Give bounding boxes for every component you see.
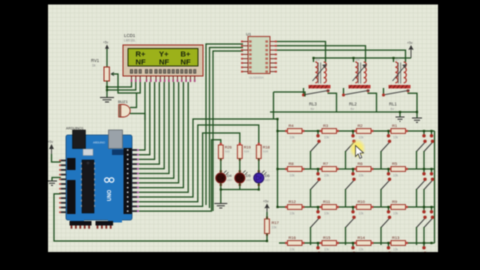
- wire P1 to RV1 top: [106, 49, 108, 67]
- push button S15 (row 3): [424, 207, 434, 245]
- resistor R7: [320, 161, 339, 178]
- svg-text:RL1: RL1: [389, 102, 397, 107]
- svg-text:U1: U1: [246, 32, 252, 37]
- buzzer wires: [130, 93, 145, 120]
- ground G3 (relay bus): [412, 112, 422, 122]
- matrix row 3 wire: [278, 206, 435, 208]
- svg-text:R8: R8: [289, 161, 295, 166]
- relay switch RL3: [302, 88, 330, 111]
- svg-text:10k: 10k: [324, 211, 330, 215]
- ground G5 (col4 top): [396, 112, 405, 121]
- wires U1 outputs to relay coils: [277, 42, 406, 63]
- svg-text:R3: R3: [323, 123, 329, 128]
- resistor R1: [389, 123, 408, 140]
- resistor R14: [354, 235, 373, 252]
- resistor R17: [265, 217, 280, 236]
- Arduino logo + UNO text: [105, 178, 114, 201]
- svg-text:ULN2003A: ULN2003A: [249, 76, 264, 80]
- push button S6 (row 2): [311, 169, 321, 207]
- svg-text:10k: 10k: [290, 135, 296, 139]
- svg-text:10k: 10k: [324, 173, 330, 177]
- relay switch RL1: [382, 88, 410, 111]
- wire Arduino to R18: [139, 125, 259, 202]
- Arduino UNO board ARD1: [66, 127, 132, 223]
- wires LEDs to ground join: [221, 183, 259, 203]
- svg-text:10k: 10k: [393, 135, 399, 139]
- svg-text:10k: 10k: [359, 135, 365, 139]
- svg-text:LED: LED: [265, 178, 270, 182]
- wire Arduino to R19: [139, 133, 240, 206]
- relay bottom bus wire: [270, 111, 417, 113]
- resistor R8: [285, 161, 304, 178]
- svg-text:LM016L: LM016L: [124, 39, 136, 43]
- svg-text:NF: NF: [181, 58, 191, 67]
- power +5V P1 (above RV1): [103, 41, 109, 57]
- wires relay switch outputs to bottom bus: [328, 93, 418, 112]
- mouse cursor: [356, 146, 364, 159]
- push button S10 (row 2): [424, 169, 434, 207]
- relay coil U7 (for RL1): [389, 58, 411, 89]
- svg-text:RL2: RL2: [349, 102, 357, 107]
- resistor R4: [285, 123, 304, 140]
- resistor R5: [389, 161, 408, 178]
- push button S17 (row 4): [351, 243, 355, 255]
- svg-text:R13: R13: [392, 235, 400, 240]
- svg-text:R15: R15: [323, 235, 331, 240]
- svg-text:10k: 10k: [272, 226, 278, 230]
- push button S4 (row 1): [417, 131, 427, 169]
- svg-text:UNO: UNO: [107, 190, 113, 201]
- svg-text:U7: U7: [396, 58, 400, 62]
- svg-text:500: 500: [225, 150, 230, 154]
- svg-text:10k: 10k: [359, 247, 365, 251]
- push button S8 (row 2): [381, 169, 391, 207]
- svg-text:10k: 10k: [393, 247, 399, 251]
- buzzer BUZ1: [118, 100, 130, 117]
- svg-text:10k: 10k: [393, 211, 399, 215]
- svg-text:R6: R6: [358, 161, 364, 166]
- svg-text:RV1: RV1: [91, 58, 100, 63]
- Arduino ATmega DIP IC: [81, 160, 95, 213]
- LED D6: [254, 170, 270, 183]
- svg-text:BUZ1: BUZ1: [118, 100, 128, 104]
- svg-text:R5: R5: [392, 161, 398, 166]
- svg-text:RL3: RL3: [309, 102, 317, 107]
- Arduino right pin header: [124, 148, 140, 214]
- wire relay area to matrix left bus top: [274, 92, 306, 97]
- resistor R9: [389, 199, 408, 216]
- relay coil supply bus: [314, 58, 412, 62]
- matrix right bus: [434, 131, 436, 243]
- svg-text:10k: 10k: [290, 211, 296, 215]
- svg-text:LCD1: LCD1: [124, 33, 136, 38]
- LED D5: [235, 170, 251, 183]
- relay coil U6 (for RL2): [349, 58, 371, 89]
- relay switch RL2: [342, 88, 370, 111]
- LED pin junction dots: [220, 170, 261, 186]
- schematic grid background: [48, 5, 438, 253]
- wires resistors to LEDs: [221, 159, 259, 174]
- push button S1 (row 1): [311, 131, 321, 169]
- power +5V P4 (above R17): [263, 200, 269, 213]
- op-amp / driver IC U1 (ULN2003): [241, 32, 277, 80]
- Arduino bottom pin headers: [70, 221, 114, 229]
- LED D4: [216, 170, 232, 183]
- matrix left bus (upper): [273, 92, 275, 119]
- svg-text:U6: U6: [356, 58, 360, 62]
- resistor R10: [354, 199, 373, 216]
- matrix row 4 wire: [279, 242, 435, 244]
- svg-text:R9: R9: [392, 199, 398, 204]
- svg-text:R4: R4: [289, 123, 295, 128]
- wire bundle: LCD data bus staircase to Arduino right pins: [139, 82, 188, 192]
- svg-text:+5v: +5v: [263, 200, 269, 204]
- Arduino USB connector (grey): [109, 130, 123, 149]
- wire Arduino to keypad matrix left bus: [139, 119, 278, 197]
- resistor R15: [320, 235, 339, 252]
- svg-text:R17: R17: [272, 220, 280, 225]
- matrix left bus (lower): [277, 119, 279, 207]
- svg-text:LED: LED: [246, 178, 251, 182]
- svg-text:10k: 10k: [324, 247, 330, 251]
- resistor R18: [256, 143, 269, 161]
- Arduino DC jack (black): [73, 130, 86, 149]
- Arduino digital header label strip: [112, 150, 127, 156]
- wires P2 to Arduino left pins: [52, 154, 61, 162]
- wires RV1 to LCD pins VSS VDD VEE: [107, 74, 140, 93]
- resistor R19: [237, 143, 250, 161]
- svg-text:R11: R11: [323, 199, 331, 204]
- ground G2 (left of Arduino): [47, 178, 61, 186]
- resistor R3: [320, 123, 339, 140]
- push button S11 (row 3): [311, 207, 321, 245]
- wire RV1 bottom to ground: [106, 81, 108, 97]
- svg-text:U5: U5: [316, 58, 320, 62]
- svg-text:NF: NF: [159, 58, 169, 67]
- push button S5 (row 1): [424, 131, 434, 169]
- svg-text:D4: D4: [227, 174, 232, 178]
- svg-text:R16: R16: [289, 235, 297, 240]
- resistor R6: [354, 161, 373, 178]
- svg-text:10k: 10k: [393, 173, 399, 177]
- svg-text:R7: R7: [323, 161, 329, 166]
- svg-text:D6: D6: [265, 174, 270, 178]
- svg-text:10k: 10k: [290, 247, 296, 251]
- svg-text:R12: R12: [289, 199, 297, 204]
- ground G4 (LEDs): [214, 204, 227, 209]
- push button S13 (row 3): [381, 207, 391, 245]
- svg-text:ARDUINO: ARDUINO: [93, 141, 105, 145]
- svg-text:+5v: +5v: [407, 41, 413, 45]
- push button S3 (row 1): [381, 131, 391, 169]
- wire junction dots: [106, 57, 433, 244]
- long ground/bus wire from Arduino left pin down and across bottom: [54, 194, 267, 241]
- svg-text:R14: R14: [358, 235, 366, 240]
- svg-text:5V: 5V: [311, 107, 315, 111]
- Arduino left pin header: [59, 158, 76, 214]
- wire bundle Arduino to U1 inputs: [206, 44, 243, 211]
- power +5V P3 (relay supply): [407, 41, 413, 58]
- push button S16 (row 4): [316, 243, 320, 255]
- push button S9 (row 2): [417, 169, 427, 207]
- LCD1 LM016L display: [123, 33, 203, 76]
- wire Arduino to R26: [139, 140, 221, 211]
- svg-text:+5v: +5v: [103, 41, 109, 45]
- svg-text:R10: R10: [358, 199, 366, 204]
- svg-text:5V: 5V: [351, 107, 355, 111]
- relay coil U5 (for RL3): [309, 58, 331, 89]
- ground under RV1: [100, 98, 114, 103]
- resistor R11: [320, 199, 339, 216]
- matrix row 2 wire: [278, 168, 435, 170]
- svg-text:50R: 50R: [244, 150, 250, 154]
- resistor R16: [285, 235, 304, 252]
- push button S18 (row 4): [387, 243, 391, 255]
- push button S7 (row 2): [346, 169, 356, 207]
- potentiometer RV1: [91, 58, 116, 81]
- svg-text:R1: R1: [392, 123, 398, 128]
- svg-text:+5v: +5v: [48, 140, 54, 144]
- svg-text:10k: 10k: [359, 173, 365, 177]
- resistor R12: [285, 199, 304, 216]
- push button S14 (row 3): [417, 207, 427, 245]
- wires R17: [266, 212, 268, 241]
- svg-text:R2: R2: [358, 123, 364, 128]
- push button S19 (row 4): [422, 243, 426, 255]
- selection glow highlight: [349, 139, 365, 159]
- push button S2 (row 1): [346, 131, 356, 169]
- resistor R26: [218, 143, 231, 161]
- svg-text:LED: LED: [227, 178, 232, 182]
- svg-text:10k: 10k: [359, 211, 365, 215]
- Arduino ICSP block: [83, 149, 93, 156]
- LCD pin stubs below: [131, 76, 196, 82]
- matrix row 1 wire: [278, 130, 435, 132]
- svg-text:10k: 10k: [290, 173, 296, 177]
- svg-text:5V: 5V: [391, 107, 395, 111]
- svg-text:10k: 10k: [324, 135, 330, 139]
- svg-text:NF: NF: [136, 58, 146, 67]
- push button S12 (row 3): [346, 207, 356, 245]
- resistor R13: [389, 235, 408, 252]
- power +5V P2 (left of Arduino): [48, 140, 54, 154]
- resistor R2: [354, 123, 373, 140]
- svg-text:D5: D5: [246, 174, 251, 178]
- svg-text:50R: 50R: [263, 150, 269, 154]
- svg-text:1k: 1k: [92, 64, 96, 68]
